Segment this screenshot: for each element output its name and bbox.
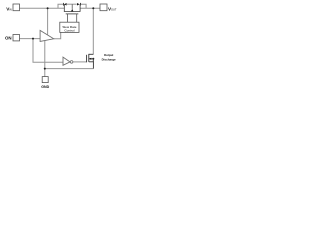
- svg-text:Control: Control: [64, 28, 74, 32]
- svg-text:Discharge: Discharge: [102, 58, 116, 62]
- svg-text:Output: Output: [104, 53, 114, 57]
- svg-text:GND: GND: [41, 85, 49, 89]
- svg-text:ON: ON: [5, 35, 12, 40]
- svg-text:OUT: OUT: [111, 7, 117, 11]
- svg-text:IN: IN: [9, 7, 12, 11]
